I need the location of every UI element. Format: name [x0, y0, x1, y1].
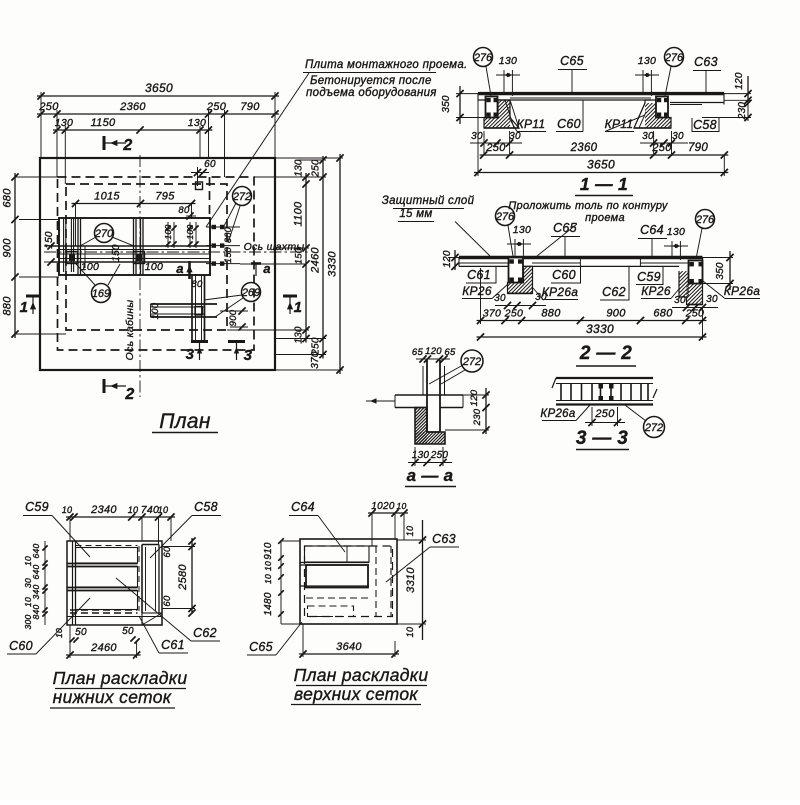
section a-a cut mark right — [251, 262, 261, 265]
beam transverse horizontal lines — [50, 245, 210, 247]
svg-text:С63: С63 — [694, 55, 718, 69]
svg-text:2: 2 — [122, 137, 132, 154]
lower mesh plan outer rect — [67, 541, 162, 625]
plan view: slab outer contour — [40, 158, 275, 370]
svg-text:130: 130 — [55, 117, 73, 129]
section mark 2 top — [103, 136, 106, 150]
svg-text:169: 169 — [92, 288, 110, 300]
detail a-a slab band — [395, 394, 463, 396]
svg-text:150: 150 — [294, 247, 305, 264]
svg-text:880: 880 — [2, 296, 14, 316]
label circle 276 left 2-2 — [496, 207, 515, 226]
section 1-1 slab top chord (bold) — [478, 92, 724, 95]
svg-text:795: 795 — [155, 191, 175, 203]
svg-text:КР26а: КР26а — [540, 408, 575, 420]
mesh C58 vertical strip — [141, 545, 143, 614]
svg-text:30: 30 — [674, 295, 686, 306]
svg-text:а — а: а — а — [407, 466, 454, 485]
machine beam band outer rect — [59, 218, 210, 275]
svg-text:350: 350 — [441, 95, 452, 113]
svg-text:С65: С65 — [249, 640, 273, 654]
section 3-3 mesh strip bottom chords — [556, 400, 653, 402]
rebar cage KP26 right — [689, 261, 703, 284]
svg-text:100: 100 — [81, 261, 99, 273]
svg-text:1100: 1100 — [293, 201, 305, 226]
svg-text:150: 150 — [111, 244, 122, 262]
svg-text:230: 230 — [472, 408, 483, 426]
svg-text:120: 120 — [734, 72, 745, 90]
svg-text:КР11: КР11 — [605, 117, 634, 131]
mesh lower band outline — [76, 591, 138, 610]
top dim row lower mesh 10/2340/10/740/10 — [66, 516, 175, 518]
dim row 130/1150/130 — [53, 129, 212, 131]
lower mesh left vertical double — [72, 541, 74, 625]
dim row 250/2360/250/790 of section 1-1 — [480, 154, 729, 156]
axis line Ось шахты (horizontal dash-dot) — [44, 251, 310, 253]
top dim 1020/10 — [368, 512, 408, 514]
svg-text:276: 276 — [695, 214, 715, 226]
svg-text:300: 300 — [23, 614, 33, 629]
section 2-2 slab bottom line — [459, 265, 679, 267]
thick mesh edge band 2 — [67, 587, 138, 589]
svg-text:250: 250 — [594, 408, 615, 420]
section 1-1 slab bottom line — [478, 99, 651, 101]
svg-text:1: 1 — [20, 299, 29, 316]
note leader line to opening — [206, 73, 309, 227]
section 3-3 vertical bars — [560, 384, 562, 401]
svg-text:С60: С60 — [9, 639, 33, 653]
svg-text:10: 10 — [158, 505, 169, 515]
svg-text:370: 370 — [483, 308, 501, 320]
svg-text:Бетонируется после: Бетонируется после — [310, 75, 432, 87]
svg-text:КР26а: КР26а — [542, 285, 579, 299]
svg-text:30: 30 — [471, 131, 483, 142]
slab joint lines at opening edges — [579, 259, 581, 267]
opening top detail small square — [196, 182, 203, 190]
svg-text:250: 250 — [485, 142, 506, 154]
dashed vertical under strip — [138, 546, 140, 611]
left anchor guide verticals — [63, 219, 65, 272]
section mark 1 left — [26, 295, 40, 298]
plan dashed contour B (opening zone) — [66, 184, 227, 330]
extension lines for 3650 — [40, 92, 42, 158]
circle mark 272 opening bars — [233, 187, 252, 206]
svg-text:900: 900 — [606, 308, 626, 320]
svg-text:10: 10 — [263, 574, 273, 584]
svg-text:269: 269 — [241, 287, 260, 299]
svg-text:120: 120 — [469, 389, 480, 406]
svg-text:План: План — [159, 410, 211, 433]
svg-text:100: 100 — [150, 302, 161, 319]
svg-text:640: 640 — [31, 564, 41, 579]
svg-text:Ось кабины: Ось кабины — [124, 300, 136, 361]
strip bottom square with diagonal — [142, 613, 162, 625]
svg-text:КР11: КР11 — [517, 117, 546, 131]
dim 1015/795 over beams — [72, 203, 196, 205]
svg-text:10: 10 — [396, 501, 406, 511]
dim 3330 of section 2-2 — [477, 336, 707, 338]
svg-text:250: 250 — [206, 101, 227, 113]
upper mesh lower dashed band — [306, 597, 369, 599]
thick mesh edge band 1 — [67, 563, 138, 565]
svg-text:3: 3 — [186, 346, 195, 363]
svg-text:а: а — [263, 261, 271, 276]
upper mesh inner verticals — [346, 546, 348, 562]
svg-text:1: 1 — [294, 299, 303, 316]
svg-text:3 — 3: 3 — 3 — [576, 428, 628, 449]
svg-text:50: 50 — [122, 626, 134, 637]
svg-text:План раскладки: План раскладки — [294, 665, 429, 685]
svg-text:проема: проема — [585, 212, 625, 224]
beam web double line left — [77, 218, 79, 275]
svg-text:нижних сеток: нижних сеток — [53, 687, 172, 707]
section 3-3 center bar black squares — [599, 384, 604, 389]
svg-text:10: 10 — [128, 505, 139, 515]
svg-text:3330: 3330 — [586, 322, 614, 336]
svg-text:3650: 3650 — [145, 81, 173, 95]
svg-text:С64: С64 — [291, 500, 315, 514]
svg-text:250: 250 — [504, 308, 523, 320]
section mark 3 right — [228, 340, 245, 343]
svg-text:30: 30 — [509, 131, 521, 142]
svg-text:С59: С59 — [637, 270, 661, 284]
upper mesh sheet C64 band — [305, 546, 370, 562]
svg-text:С59: С59 — [25, 500, 49, 514]
svg-text:276: 276 — [664, 52, 684, 64]
svg-text:100: 100 — [163, 224, 173, 239]
svg-text:80: 80 — [191, 279, 203, 290]
svg-text:С62: С62 — [193, 626, 217, 640]
svg-text:С61: С61 — [467, 268, 491, 282]
svg-text:250: 250 — [311, 159, 322, 178]
circle mark 269 counterweight frame — [242, 283, 261, 302]
svg-text:1150: 1150 — [91, 117, 116, 129]
svg-text:3330: 3330 — [327, 251, 339, 277]
svg-text:Проложить толь по контуру: Проложить толь по контуру — [508, 200, 669, 212]
svg-text:10: 10 — [405, 526, 415, 537]
mesh sheet C59 band outline — [76, 548, 138, 564]
svg-text:Защитный слой: Защитный слой — [382, 195, 475, 207]
svg-text:2580: 2580 — [177, 564, 189, 591]
section mark 1 right — [283, 295, 297, 298]
svg-text:КР26а: КР26а — [724, 284, 761, 298]
sub-band anchor square — [195, 307, 203, 316]
svg-text:3640: 3640 — [336, 641, 362, 653]
svg-text:80: 80 — [178, 205, 190, 216]
svg-text:680: 680 — [653, 308, 673, 320]
svg-text:130: 130 — [412, 450, 430, 461]
svg-text:верхних сеток: верхних сеток — [294, 684, 418, 704]
svg-text:С64: С64 — [640, 223, 664, 237]
svg-text:30: 30 — [494, 293, 506, 304]
svg-text:10: 10 — [62, 505, 73, 515]
upper mesh middle band bold — [306, 565, 368, 588]
rebar cage KP11 right — [656, 97, 668, 118]
svg-text:250: 250 — [685, 308, 704, 320]
right support hatched wall 2-2 — [653, 271, 716, 297]
label circle 276 left with leader — [474, 48, 493, 67]
svg-text:60: 60 — [204, 159, 216, 170]
dim row 250/2360/250/790 — [37, 113, 279, 115]
svg-text:2: 2 — [124, 386, 134, 403]
svg-text:1015: 1015 — [94, 191, 120, 203]
section 2-2 slab top chord (bold) — [459, 256, 703, 259]
right anchor plate with bolt — [134, 252, 145, 264]
right vertical dim line 3330/370 — [339, 154, 341, 374]
svg-text:276: 276 — [473, 52, 493, 64]
svg-text:2340: 2340 — [90, 504, 117, 516]
svg-text:130: 130 — [513, 224, 531, 236]
section mark 3 left — [191, 340, 208, 343]
svg-text:100: 100 — [185, 224, 195, 239]
upper mesh vertical dashed pair — [375, 546, 377, 617]
svg-text:1 — 1: 1 — 1 — [580, 174, 628, 194]
mesh middle band outline — [76, 567, 138, 588]
svg-text:120: 120 — [442, 250, 453, 268]
left support hatched wall — [470, 100, 539, 128]
svg-text:790: 790 — [688, 142, 708, 154]
plan dashed contour A (slab edge under) — [58, 177, 255, 350]
dim 3650 of section 1-1 — [474, 172, 728, 174]
svg-text:30: 30 — [535, 292, 547, 303]
right support hatched wall — [620, 103, 682, 128]
label circle 276 right with leader — [665, 48, 684, 67]
svg-text:10: 10 — [54, 628, 64, 638]
svg-text:790: 790 — [240, 101, 260, 113]
right vertical dim line 1100/150/130 — [305, 173, 307, 343]
svg-text:План раскладки: План раскладки — [53, 668, 188, 688]
svg-text:276: 276 — [495, 211, 515, 223]
svg-text:2360: 2360 — [570, 142, 598, 154]
extension lines right side — [254, 176, 326, 178]
svg-text:подъема оборудования: подъема оборудования — [306, 87, 437, 99]
left vertical dims 680/900/880 — [14, 173, 16, 338]
left support hatched wall 2-2 — [497, 266, 561, 293]
svg-text:120: 120 — [425, 346, 442, 357]
svg-text:880: 880 — [541, 308, 561, 320]
svg-text:3: 3 — [244, 347, 253, 364]
svg-text:1020: 1020 — [371, 501, 395, 512]
bottom dim 3640 — [299, 653, 399, 655]
section a-a cut mark left with arrow — [188, 261, 191, 279]
svg-text:900: 900 — [2, 238, 14, 258]
svg-text:130: 130 — [294, 326, 305, 344]
svg-text:С60: С60 — [552, 268, 576, 282]
upper mesh dashed inner rect — [305, 546, 393, 617]
svg-text:С58: С58 — [693, 118, 717, 132]
svg-text:2460: 2460 — [310, 247, 322, 274]
svg-text:3650: 3650 — [587, 158, 615, 172]
svg-text:370: 370 — [310, 351, 321, 369]
svg-text:2 — 2: 2 — 2 — [579, 343, 632, 364]
section 3-3 mesh strip top chords — [556, 377, 653, 379]
svg-text:1480: 1480 — [263, 592, 274, 616]
upper mesh plan outer rect — [300, 539, 397, 624]
left anchor plate with bolt — [67, 252, 78, 264]
mesh bar dots at opening edge rows with arrows — [206, 226, 240, 228]
svg-text:2460: 2460 — [90, 642, 117, 654]
right dim 2580 with 60 offsets — [191, 538, 193, 614]
svg-text:150: 150 — [223, 247, 233, 263]
lower mesh bottom band — [67, 616, 162, 618]
svg-text:С60: С60 — [557, 117, 581, 131]
rebar cage KP11 left (bold box with corner bars) — [486, 97, 498, 118]
svg-text:50: 50 — [75, 627, 87, 638]
svg-text:3310: 3310 — [405, 567, 417, 593]
svg-text:130: 130 — [499, 55, 517, 67]
svg-text:60: 60 — [162, 546, 173, 558]
upper mesh thick edge 1 — [300, 562, 369, 564]
plan dashed line: montage opening left edge — [209, 177, 211, 218]
rebar cage KP26 left — [509, 258, 524, 283]
detail a-a pipe verticals — [426, 360, 428, 432]
svg-text:С58: С58 — [194, 500, 218, 514]
svg-text:10: 10 — [405, 627, 415, 638]
svg-text:Плита монтажного проема.: Плита монтажного проема. — [305, 59, 468, 71]
svg-text:С61: С61 — [161, 638, 185, 652]
svg-text:КР26: КР26 — [641, 284, 671, 298]
svg-text:2360: 2360 — [119, 101, 146, 113]
right vertical dim line 250/2460/250 — [322, 156, 324, 359]
section 1-1 slab mid line right part — [510, 97, 651, 99]
detail a-a hatched base — [379, 408, 465, 445]
svg-text:130: 130 — [638, 55, 656, 67]
dashed thick mesh edge 3 — [70, 609, 138, 611]
section 3-3 end hooks — [552, 378, 556, 388]
svg-text:30: 30 — [706, 294, 718, 305]
svg-text:15 мм: 15 мм — [399, 208, 432, 220]
svg-text:300: 300 — [223, 227, 233, 243]
svg-text:250: 250 — [651, 142, 672, 154]
svg-text:350: 350 — [715, 262, 726, 280]
svg-text:740: 740 — [141, 504, 159, 516]
svg-text:272: 272 — [232, 191, 251, 203]
circle 272 3-3 with leader — [644, 417, 665, 438]
label circle 276 right 2-2 — [696, 210, 715, 229]
svg-text:250: 250 — [38, 101, 59, 113]
top dim row 3650 — [37, 95, 279, 97]
svg-text:272: 272 — [462, 356, 481, 368]
svg-text:60: 60 — [162, 595, 173, 607]
dim row 370/250/880/900/680/250 — [477, 320, 707, 322]
svg-text:100: 100 — [145, 261, 163, 273]
svg-text:130: 130 — [294, 159, 305, 177]
svg-text:а: а — [176, 261, 184, 276]
svg-text:910: 910 — [263, 542, 274, 560]
svg-text:272: 272 — [644, 422, 663, 434]
upper mesh thick edge 2 — [300, 585, 369, 587]
counterweight sub-band rails — [151, 303, 218, 305]
circle mark 169 anchor plates — [92, 284, 111, 303]
svg-text:С62: С62 — [602, 285, 626, 299]
svg-text:270: 270 — [94, 228, 114, 240]
svg-text:С65: С65 — [553, 221, 577, 235]
circle 272 detail with leaders — [461, 350, 483, 372]
lower duct shaft strip below beam — [191, 275, 193, 341]
svg-text:30: 30 — [642, 131, 654, 142]
svg-text:900: 900 — [228, 309, 239, 326]
svg-text:130: 130 — [188, 117, 206, 129]
svg-text:10: 10 — [263, 561, 273, 571]
svg-text:КР26: КР26 — [462, 284, 492, 298]
svg-text:С63: С63 — [432, 532, 456, 546]
svg-text:С65: С65 — [560, 54, 584, 68]
circle mark 270 machine beam — [95, 224, 114, 243]
svg-text:65: 65 — [412, 347, 424, 358]
axis line Ось кабины (vertical dash-dot) — [139, 155, 141, 397]
mini dim cluster verticals near opening — [167, 222, 169, 248]
beam web double line right pair — [133, 218, 135, 275]
section mark 2 bottom — [103, 379, 106, 393]
svg-text:130: 130 — [667, 226, 685, 238]
svg-text:680: 680 — [2, 188, 14, 208]
